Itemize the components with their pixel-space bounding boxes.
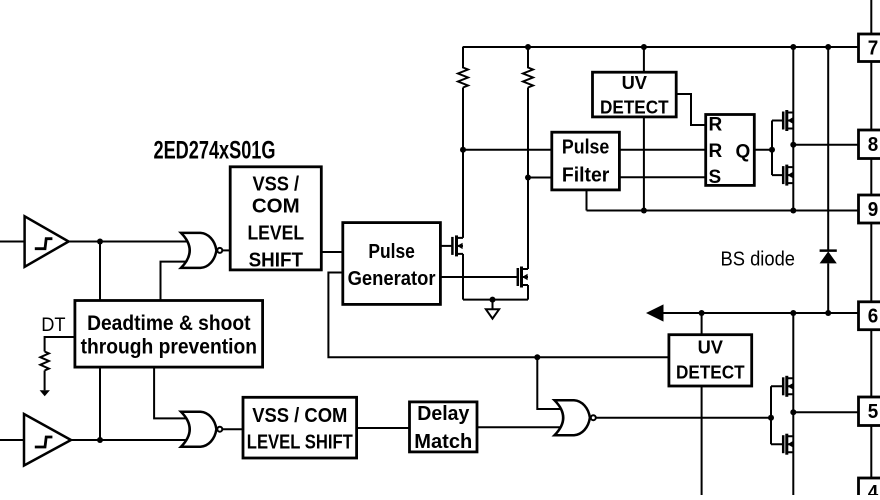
wire low-side driver drain/source line (VS to bottom): [792, 313, 794, 495]
wire low-side driver gate vertical: [771, 386, 783, 444]
pin 4: [859, 478, 880, 500]
wire node R2/drain to Pulse Filter input 2: [528, 177, 552, 179]
node rail/driver: [790, 44, 796, 50]
wire input /IN (bottom, from left edge): [0, 439, 24, 441]
buffer Schmitt trigger A1 (top input): [25, 216, 69, 266]
svg-text:Deadtime & shoot: Deadtime & shoot: [87, 312, 250, 335]
wire Pulse Generator lower-left output to UV DETECT U4 input: [328, 273, 669, 358]
wire box2 output to Delay Match: [357, 427, 410, 429]
wire ground link between Q1 and Q2 sources: [463, 299, 528, 301]
wire right-edge pin bus: [870, 0, 872, 492]
node VS/BS diode: [825, 310, 831, 316]
box UV DETECT U3 (high side): [593, 72, 677, 117]
node HO: [790, 142, 796, 148]
svg-text:Match: Match: [414, 431, 472, 453]
wire Q2 source down to ground link: [527, 285, 529, 300]
transistor Q2 level-shift right: [518, 267, 528, 288]
transistor Q3 high-side PMOS: [783, 110, 793, 131]
node R2/PF2: [525, 175, 531, 181]
wire Deadtime box top to NOR1 input 2: [161, 262, 191, 301]
svg-text:6: 6: [868, 306, 879, 328]
node gnd link: [490, 297, 496, 303]
node LO: [790, 409, 796, 415]
wire Pulse Filter output 1 to RS latch R input: [619, 149, 705, 151]
box VSS / COM LEVEL SHIFT (low side): [243, 397, 357, 458]
node rail/R2: [525, 44, 531, 50]
wire VSS/COM box to Pulse Generator: [321, 251, 343, 253]
wire VS line (arrow to pin 6): [646, 304, 859, 321]
wire Deadtime box bottom to NOR2 input 1: [154, 367, 190, 418]
svg-text:BS diode: BS diode: [721, 248, 796, 270]
resistor R2 (pull-up, right): [523, 47, 533, 88]
svg-text:S: S: [709, 167, 722, 188]
svg-text:DETECT: DETECT: [676, 362, 745, 382]
box VSS / COM LEVEL SHIFT (high side): [230, 167, 321, 270]
node PG/NOR3: [534, 354, 540, 360]
node VS/driver: [790, 310, 796, 316]
wire Deadtime box to DT resistor: [45, 337, 75, 352]
transistor Q6 low-side NMOS: [783, 434, 793, 455]
wire UV DETECT U4 bottom down (to COM, off image): [701, 386, 703, 495]
svg-text:COM: COM: [252, 196, 300, 218]
wire high-side driver drain/source line (VB to VSS): [792, 47, 794, 211]
svg-text:Filter: Filter: [562, 165, 610, 187]
wire high-side output node to pin 8: [793, 144, 858, 146]
wire Schmitt A2 output to NOR2 input 2: [71, 439, 190, 441]
pin 9: [859, 195, 880, 223]
box Pulse Generator: [343, 223, 441, 305]
node A2 out: [97, 437, 103, 443]
wire Schmitt A1 output to NOR1 input 1: [69, 241, 190, 243]
svg-text:4: 4: [868, 482, 879, 495]
wire NOR3 output to low-side gate node: [595, 417, 771, 419]
wire VB rail to UV DETECT U3 top: [643, 47, 645, 72]
wire R1 bottom to level-shift MOSFET Q1 drain: [462, 88, 464, 238]
svg-text:Generator: Generator: [348, 268, 436, 290]
wire input IN (top, from left edge): [0, 241, 25, 243]
svg-text:5: 5: [868, 401, 879, 423]
node VSS/UV1: [641, 208, 647, 214]
wire node to NOR3 input 1: [537, 357, 560, 409]
buffer Schmitt trigger A2 (bottom input): [24, 414, 71, 466]
wire VS line to UV DETECT U4 top: [701, 313, 703, 335]
wire low-side output node to pin 5: [793, 411, 858, 413]
node rail/UV1: [641, 44, 647, 50]
wire node A1 output down to Deadtime box top: [99, 242, 101, 301]
resistor R3 (DT): [40, 352, 49, 371]
box Pulse Filter: [552, 132, 620, 190]
wire Pulse Filter bottom to VSS line: [586, 190, 588, 211]
gate NOR3 (low side, center): [555, 400, 596, 435]
node rail/BS diode: [825, 44, 831, 50]
gate NOR2 (low side): [181, 412, 222, 447]
wire Delay Match output to NOR3 input 2: [477, 426, 560, 428]
svg-text:DT: DT: [41, 315, 66, 336]
transistor Q4 high-side NMOS: [783, 165, 793, 186]
svg-text:LEVEL: LEVEL: [247, 223, 304, 245]
wire node R1/drain to Pulse Filter input 1: [463, 149, 552, 151]
svg-text:VSS /: VSS /: [252, 173, 299, 195]
resistor R1 (pull-up, left): [458, 47, 468, 88]
svg-text:Delay: Delay: [417, 403, 470, 425]
wire Pulse Generator output 1 to Q1 gate: [440, 245, 452, 247]
wire Q1 source down to ground link: [462, 254, 464, 300]
svg-text:UV: UV: [698, 337, 723, 357]
node Q/gates: [769, 147, 775, 153]
wire Pulse Generator output 2 to Q2 gate: [440, 276, 517, 278]
ground (VSS arrow below link): [486, 300, 499, 319]
wire Deadtime box bottom to node B (A2 output): [99, 367, 101, 440]
svg-text:8: 8: [868, 134, 879, 156]
wire UV DETECT U3 output to RS latch R input: [676, 94, 706, 125]
box Delay Match: [410, 402, 478, 452]
wire RS latch Q output to high-side gate node: [754, 149, 772, 151]
pin 8: [859, 130, 880, 159]
transistor Q5 low-side PMOS: [783, 376, 793, 397]
box UV DETECT U4 (low side): [669, 335, 752, 386]
wire high-side driver gate vertical: [772, 121, 783, 176]
wire R2 bottom to level-shift MOSFET Q2 drain: [527, 88, 529, 270]
svg-text:Pulse: Pulse: [368, 241, 415, 263]
wire Pulse Filter output 2 to RS latch S input: [619, 176, 705, 178]
wire NOR2 output to VSS/COM LEVEL SHIFT box 2: [222, 428, 243, 430]
wire UV DETECT U3 bottom to VSS line: [643, 117, 645, 211]
gate NOR1 (high side): [181, 233, 222, 268]
pin 6: [859, 302, 880, 330]
wire VSS line to pin 9: [587, 210, 859, 212]
svg-text:2ED274xS01G: 2ED274xS01G: [154, 137, 276, 165]
box RS latch U5: [706, 115, 755, 186]
svg-text:through prevention: through prevention: [81, 335, 257, 358]
svg-text:Q: Q: [736, 141, 751, 162]
svg-text:UV: UV: [622, 73, 647, 93]
svg-text:LEVEL SHIFT: LEVEL SHIFT: [247, 432, 353, 454]
wire VB rail (top): [463, 46, 859, 48]
pin 7: [859, 34, 880, 62]
svg-text:DETECT: DETECT: [600, 97, 669, 117]
transistor Q1 level-shift left: [452, 235, 463, 256]
node LO gate: [768, 415, 774, 421]
svg-text:SHIFT: SHIFT: [249, 250, 303, 272]
node A1 out: [97, 239, 103, 245]
diode BS (bootstrap) with wires: [820, 47, 837, 313]
svg-text:Pulse: Pulse: [562, 137, 609, 159]
wire NOR1 output to VSS/COM LEVEL SHIFT box: [222, 249, 230, 251]
node VS/UV2: [699, 310, 705, 316]
box Deadtime & shoot through prevention: [75, 301, 263, 368]
svg-text:9: 9: [868, 199, 879, 221]
svg-text:R: R: [709, 141, 723, 162]
pin 5: [859, 397, 880, 426]
svg-text:7: 7: [868, 38, 879, 60]
node R1/PF1: [460, 147, 466, 153]
ground (DT arrow, filled): [40, 371, 50, 397]
node VSS/driver: [790, 208, 796, 214]
svg-text:VSS / COM: VSS / COM: [252, 405, 347, 427]
svg-text:R: R: [709, 115, 723, 136]
